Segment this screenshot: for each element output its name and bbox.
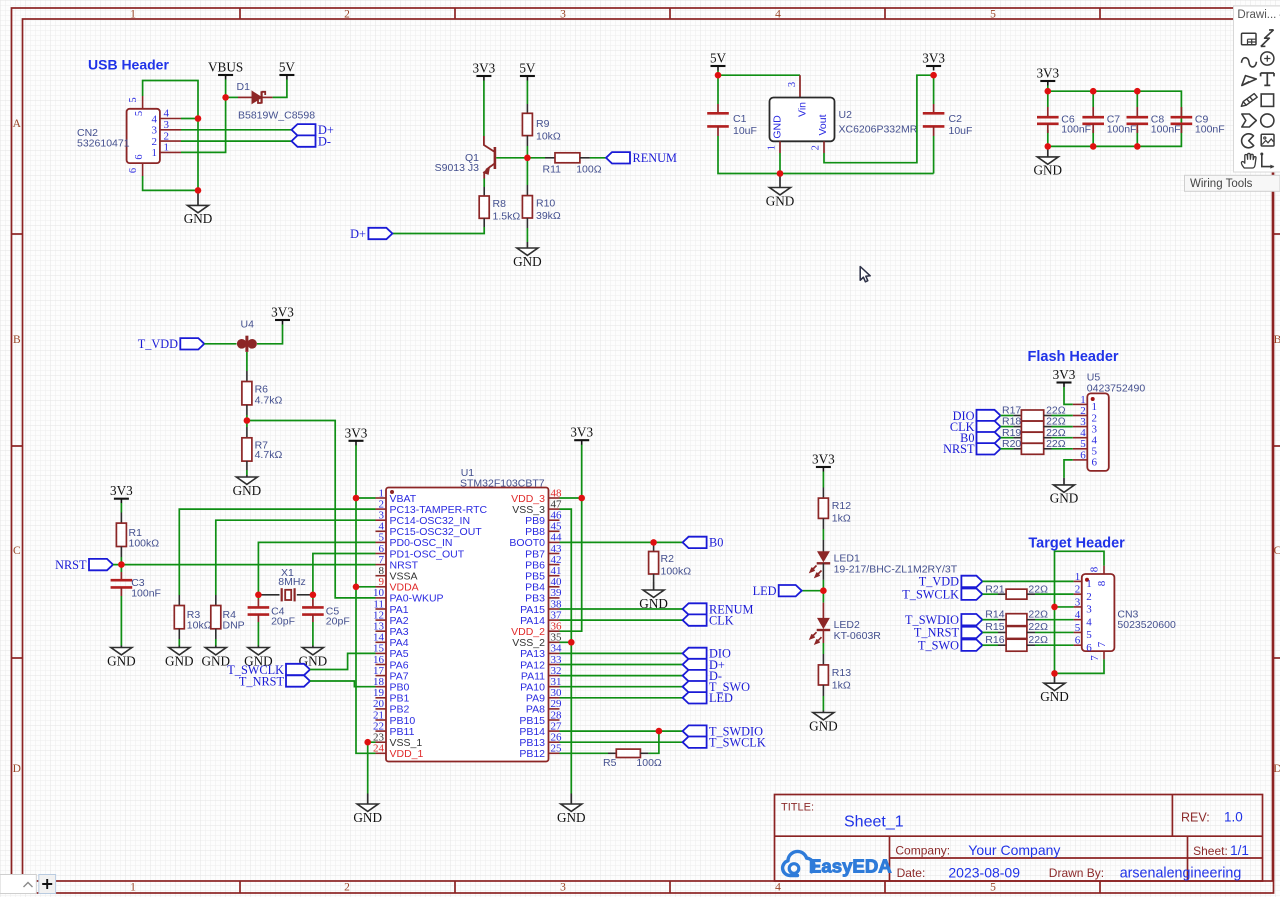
svg-text:5: 5 [990, 8, 996, 20]
wire Vout to 3V3 [824, 75, 934, 163]
wire 3V3 to top rail [1047, 86, 1049, 92]
ground below R10 [526, 242, 528, 248]
crystal X1 8MHz [261, 567, 311, 601]
wire R4 to gnd [215, 639, 217, 646]
svg-text:3V3: 3V3 [345, 425, 368, 440]
svg-text:4: 4 [775, 882, 781, 894]
svg-text:4: 4 [164, 108, 170, 120]
junction crystal left [255, 592, 262, 599]
svg-text:5: 5 [1086, 629, 1092, 641]
add sheet button [39, 875, 56, 894]
net flag NRST (flash) [977, 443, 1001, 454]
svg-text:20pF: 20pF [326, 615, 350, 627]
svg-text:GND: GND [233, 483, 262, 498]
junction target gnd [1051, 670, 1058, 677]
svg-text:100nF: 100nF [1195, 124, 1225, 136]
wire LED2 to R13 [822, 630, 824, 643]
junction VSS_2 [568, 639, 575, 646]
net flag B0 (flash) [977, 432, 1001, 443]
svg-text:R20: R20 [1002, 438, 1021, 450]
svg-text:Vin: Vin [797, 102, 809, 117]
MCU U1 STM32F103CBT7 [373, 467, 562, 762]
svg-text:TITLE:: TITLE: [781, 802, 814, 814]
EasyEDA logo [783, 851, 892, 876]
svg-text:3: 3 [1075, 596, 1081, 608]
svg-text:R12: R12 [832, 500, 851, 512]
net flag T_VDD (target) [961, 576, 982, 587]
ground below R7 [246, 475, 248, 477]
svg-text:1: 1 [130, 8, 136, 20]
wire gnd rail to CN3 pin3 [1055, 606, 1074, 608]
net flag CLK [683, 614, 707, 625]
svg-text:R14: R14 [985, 608, 1004, 620]
resistor R1 100k [116, 503, 159, 557]
net flag T_VDD [180, 338, 204, 349]
svg-text:100nF: 100nF [131, 588, 161, 600]
ferrite bead U4 [237, 319, 257, 352]
resistor R10 39k [522, 158, 561, 228]
svg-text:GND: GND [353, 810, 382, 825]
wire R6 to divider junction [246, 415, 248, 421]
wire VBUS junction to D1 anode [226, 96, 238, 98]
net flag LED (chain) [802, 590, 824, 592]
wire OSC_OUT to crystal [313, 554, 376, 595]
svg-text:10uF: 10uF [949, 125, 973, 137]
wire R19 to U5 pin4 [1052, 437, 1073, 439]
svg-text:NRST: NRST [55, 558, 87, 572]
junction VSS_1 [364, 739, 371, 746]
wire NRST row to U1 pin7 [113, 564, 376, 566]
resistor R6 4.7k [242, 371, 283, 415]
svg-text:5V: 5V [710, 51, 727, 66]
svg-text:532610471: 532610471 [77, 138, 130, 150]
svg-text:A: A [13, 118, 22, 130]
wire PA13 to DIO flag [560, 652, 683, 654]
wire CN3 pin7 to gnd junction [1055, 659, 1105, 673]
svg-text:5023520600: 5023520600 [1117, 619, 1176, 631]
svg-text:R16: R16 [985, 634, 1004, 646]
wire PB12 to R5 [560, 752, 609, 754]
wire PA15 to RENUM flag [560, 608, 683, 610]
wire 5V to R9 [526, 81, 528, 105]
svg-text:100kΩ: 100kΩ [129, 538, 160, 550]
wire BOOT0 to B0 flag [560, 541, 683, 543]
junction T_SWDIO/R5 [656, 728, 663, 735]
resistor R11 100 [527, 153, 601, 176]
svg-text:4: 4 [1086, 616, 1092, 628]
svg-text:R8: R8 [493, 198, 507, 210]
net flag DIO (flash) [977, 410, 1001, 421]
junction bottom rail C8 [1134, 143, 1141, 150]
svg-text:22Ω: 22Ω [1028, 634, 1048, 646]
wire C2 to gnd rail [933, 136, 935, 174]
resistor R17 22ohm [1001, 405, 1066, 421]
net flag D+ (Q1) [368, 228, 392, 239]
svg-text:Target Header: Target Header [1028, 536, 1125, 552]
svg-text:4: 4 [1075, 609, 1081, 621]
svg-text:4: 4 [152, 113, 158, 125]
svg-text:B: B [1274, 334, 1280, 346]
svg-text:3: 3 [164, 119, 170, 131]
svg-text:5: 5 [990, 882, 996, 894]
junction gnd bottom [195, 187, 202, 194]
svg-text:D+: D+ [350, 227, 366, 241]
svg-text:2: 2 [164, 130, 170, 142]
ground below R4 [215, 646, 217, 648]
net flag NRST [89, 559, 113, 570]
resistor R20 22ohm [1001, 438, 1066, 454]
svg-text:R21: R21 [985, 583, 1004, 595]
svg-text:4.7kΩ: 4.7kΩ [255, 394, 283, 406]
wire R11 to RENUM flag [590, 157, 606, 159]
wire U5 pin6 to gnd [1064, 460, 1073, 478]
svg-text:6: 6 [128, 168, 139, 173]
svg-text:1kΩ: 1kΩ [832, 513, 851, 525]
net flag T_SWO (target) [961, 640, 982, 651]
wire R1 to NRST node [120, 557, 122, 565]
net flag T_NRST (target) [961, 627, 982, 638]
svg-text:5: 5 [128, 97, 139, 102]
net flag DIO (U1) [683, 648, 707, 659]
capacitor C6 100nF [1037, 91, 1091, 146]
wire R12 to LED1 [822, 529, 824, 540]
wire 3V3 to U5 pin1 [1064, 387, 1073, 404]
svg-text:2: 2 [344, 882, 350, 894]
ground below R13 [822, 711, 824, 713]
svg-text:GND: GND [557, 810, 586, 825]
wire D1 cathode to 5V [273, 80, 287, 98]
wire CN3 pin8 to gnd rail [1055, 551, 1105, 673]
svg-text:GND: GND [1034, 163, 1063, 178]
tool icon wire [1261, 30, 1274, 47]
svg-text:10kΩ: 10kΩ [187, 620, 212, 632]
tool icon drag hand [1241, 153, 1256, 168]
wire 3V3 rail left (VBAT/VDDA/VDD_1) [356, 445, 376, 498]
svg-text:Date:: Date: [897, 866, 926, 880]
capacitor C8 100nF [1127, 91, 1181, 146]
svg-text:T_SWO: T_SWO [918, 639, 959, 653]
wire pin5 to gnd rail top [143, 81, 198, 191]
svg-text:B0: B0 [709, 536, 723, 550]
wire C5 to gnd [312, 622, 314, 646]
svg-text:arsenalengineering: arsenalengineering [1120, 865, 1242, 881]
tool icon netflag [1242, 76, 1257, 86]
junction VBAT [353, 495, 360, 502]
svg-text:D: D [1273, 763, 1280, 775]
wire LED1 to junction [822, 563, 824, 580]
wire R20 to U5 pin5 [1052, 448, 1073, 450]
ground below U2 [779, 174, 781, 188]
mouse cursor [860, 267, 870, 282]
svg-text:GND: GND [184, 211, 213, 226]
wire PB13 to T_SWCLK flag [560, 741, 683, 743]
wire R3 to gnd [178, 639, 180, 646]
ground symbol below CN2 [197, 190, 199, 205]
junction U2 gnd [777, 170, 784, 177]
tool icon image [1261, 134, 1274, 146]
diode D1 B5819W_C8598 [237, 81, 316, 122]
wire R21 to CN3 pin2 [1035, 593, 1074, 595]
svg-text:PB12: PB12 [519, 748, 545, 760]
wire T_SWCLK to PA5 [310, 653, 376, 669]
net flag D- [292, 135, 316, 146]
net flag D+ [292, 124, 316, 135]
svg-text:T_NRST: T_NRST [239, 674, 285, 688]
net flag D+ (U1) [683, 659, 707, 670]
net flag CLK (flash) [977, 421, 1001, 432]
wire junction to Vin pin3 [718, 74, 800, 76]
wire R8 to D+ flag [392, 227, 484, 234]
svg-text:3V3: 3V3 [922, 51, 945, 66]
tool icon text [1261, 73, 1274, 85]
svg-text:R10: R10 [536, 198, 555, 210]
svg-text:R2: R2 [661, 553, 675, 565]
resistor R19 22ohm [1001, 427, 1066, 443]
resistor R4 DNP [211, 595, 245, 639]
net flag RENUM (top) [606, 152, 630, 163]
svg-text:20pF: 20pF [271, 615, 295, 627]
junction bottom rail C7 [1090, 143, 1097, 150]
net flag B0 (U1) [683, 537, 707, 548]
wire PC13 row to R3 [179, 509, 375, 595]
svg-text:DNP: DNP [223, 620, 245, 632]
svg-text:100nF: 100nF [1151, 124, 1181, 136]
ground below C4 [257, 646, 259, 648]
wire pin3 to D+ flag [181, 129, 292, 131]
junction top rail C8 [1134, 88, 1141, 95]
tool icon dimension [1262, 155, 1274, 167]
svg-text:7: 7 [1096, 641, 1108, 647]
LED LED1 19-217/BHC-ZL1M2RY/3T [810, 540, 957, 577]
svg-text:1: 1 [767, 145, 778, 150]
net flag T_SWCLK (left) [286, 664, 310, 675]
svg-text:CLK: CLK [709, 613, 734, 627]
wire Q1 emitter to R8 [483, 179, 485, 188]
svg-text:Flash Header: Flash Header [1028, 349, 1119, 365]
drawing tools panel [1234, 6, 1280, 172]
wire PC14 row to R4 [216, 520, 376, 595]
svg-text:Drawi... —: Drawi... — [1237, 9, 1280, 21]
svg-text:GND: GND [107, 653, 136, 668]
svg-text:24: 24 [373, 743, 385, 755]
wire T_NRST to PB0 [310, 681, 376, 687]
svg-text:2: 2 [1086, 591, 1092, 603]
svg-text:10uF: 10uF [733, 125, 757, 137]
svg-text:1: 1 [130, 882, 136, 894]
svg-text:6: 6 [1075, 635, 1081, 647]
svg-text:1.0: 1.0 [1224, 810, 1243, 825]
svg-text:U2: U2 [839, 109, 853, 121]
svg-text:USB Header: USB Header [88, 57, 169, 73]
regulator U2 XC6206P332MR [767, 75, 918, 153]
wire 5V down to junction [717, 71, 719, 76]
svg-text:Vout: Vout [817, 114, 829, 135]
resistor R3 10k [174, 595, 211, 639]
wire U4 to 3V3 [257, 325, 283, 344]
wire R13 to gnd [822, 696, 824, 711]
svg-text:VDD_1: VDD_1 [390, 748, 424, 760]
capacitor C3 100nF [111, 565, 161, 600]
top rail cap bank [1048, 91, 1182, 146]
ground below R2 [653, 582, 655, 590]
wire R9 to base junction [526, 146, 528, 158]
svg-text:VBUS: VBUS [208, 60, 243, 75]
svg-text:B5819W_C8598: B5819W_C8598 [238, 110, 315, 122]
svg-text:3V3: 3V3 [473, 61, 496, 76]
junction top rail C7 [1090, 88, 1097, 95]
tool icon rect [1261, 94, 1273, 106]
svg-text:T_SWCLK: T_SWCLK [902, 587, 959, 601]
svg-text:GND: GND [202, 653, 231, 668]
junction crystal right [310, 592, 317, 599]
svg-text:3: 3 [560, 8, 566, 20]
wire R10 to gnd [526, 228, 528, 242]
capacitor C1 10uF [707, 104, 757, 137]
net flag T_NRST (left) [286, 675, 310, 686]
wire C1 branch [717, 75, 719, 104]
junction BOOT0/R2 [650, 539, 657, 546]
ground below cap bank [1047, 146, 1049, 157]
wire 3V3 rail right (VDD_3/VDD_2) [560, 445, 582, 499]
junction LED net [820, 587, 827, 594]
svg-text:8: 8 [1089, 566, 1101, 572]
svg-text:GND: GND [165, 653, 194, 668]
tool icon arc [1261, 52, 1274, 65]
svg-text:Your Company: Your Company [968, 842, 1060, 858]
svg-text:1/1: 1/1 [1230, 843, 1249, 858]
svg-text:4: 4 [775, 8, 781, 20]
resistor R8 1.5k [479, 187, 520, 227]
wire pin1 to VBUS [181, 97, 226, 152]
svg-text:3V3: 3V3 [1036, 66, 1059, 81]
svg-text:100kΩ: 100kΩ [661, 566, 692, 578]
svg-text:U4: U4 [241, 319, 255, 331]
svg-text:GND: GND [1040, 689, 1069, 704]
junction 5V/C1/Vin [715, 72, 722, 79]
wire R5 up to T_SWDIO net [648, 731, 659, 753]
tooltip Wiring Tools [1185, 175, 1280, 191]
wire pin4 to gnd rail [181, 118, 198, 120]
svg-text:6: 6 [1092, 457, 1098, 469]
wire Q1 base to junction [496, 157, 527, 159]
net flag T_SWCLK (U1) [683, 737, 707, 748]
tool icon circle [1261, 114, 1274, 127]
wire pin2 to D- flag [181, 140, 292, 142]
svg-text:R15: R15 [985, 621, 1004, 633]
svg-text:C1: C1 [733, 113, 747, 125]
junction bottom rail C6 [1045, 143, 1052, 150]
wire C4 to gnd [257, 622, 259, 646]
tool icon partial arc [1242, 134, 1254, 148]
svg-text:39kΩ: 39kΩ [536, 210, 561, 222]
svg-text:6: 6 [1080, 449, 1086, 461]
wire pin6 to gnd junction [143, 176, 198, 190]
svg-text:D1: D1 [237, 81, 251, 93]
svg-text:5V: 5V [519, 61, 536, 76]
connector CN3 5023520600 [1074, 566, 1176, 661]
wire R17 to U5 pin2 [1052, 415, 1073, 417]
svg-text:2: 2 [344, 8, 350, 20]
ground below R3 [178, 646, 180, 648]
ground below flash header [1063, 478, 1065, 485]
transistor Q1 S9013 [435, 136, 497, 179]
wire PA11 to D- flag [560, 675, 683, 677]
svg-text:5: 5 [1075, 622, 1081, 634]
svg-text:2023-08-09: 2023-08-09 [948, 864, 1020, 880]
connector U5 0423752490 [1073, 372, 1146, 471]
junction VDDA [353, 584, 360, 591]
wire C1 to gnd rail [718, 136, 934, 174]
wire R18 to U5 pin3 [1052, 426, 1073, 428]
svg-text:3V3: 3V3 [1053, 367, 1076, 382]
svg-text:Wiring Tools: Wiring Tools [1190, 178, 1253, 190]
junction divider [244, 417, 251, 424]
svg-text:1.5kΩ: 1.5kΩ [493, 211, 521, 223]
svg-text:5: 5 [134, 111, 145, 116]
svg-text:1: 1 [1086, 578, 1092, 590]
bottom sheet tab bar [0, 875, 36, 894]
resistor R12 1k [818, 472, 851, 530]
resistor R13 1k [818, 654, 851, 696]
junction gnd rail pin3 [1051, 604, 1058, 611]
net flag D- (U1) [683, 670, 707, 681]
tool icon component [1242, 33, 1257, 45]
wire PA9 to LED flag [560, 697, 683, 699]
svg-text:22Ω: 22Ω [1028, 608, 1048, 620]
svg-text:XC6206P332MR: XC6206P332MR [839, 124, 918, 136]
svg-text:GND: GND [513, 254, 542, 269]
resistor R7 4.7k [242, 421, 283, 471]
svg-text:19-217/BHC-ZL1M2RY/3T: 19-217/BHC-ZL1M2RY/3T [834, 563, 958, 575]
svg-text:6: 6 [1086, 642, 1092, 654]
wire C3 to gnd [120, 596, 122, 646]
svg-text:Drawn By:: Drawn By: [1049, 866, 1104, 880]
net flag LED (U1) [683, 692, 707, 703]
ground below target header [1054, 673, 1056, 683]
wire U2 gnd pin to rail [779, 153, 781, 174]
wire PA12 to D+ flag [560, 664, 683, 666]
capacitor C2 10uF [923, 75, 973, 137]
svg-text:3V3: 3V3 [812, 452, 835, 467]
svg-text:2: 2 [811, 145, 822, 150]
net flag RENUM (U1) [683, 603, 707, 614]
net flag T_SWDIO (target) [961, 614, 982, 625]
wire 3V3 to Q1 collector [483, 81, 485, 137]
wire PA14 to CLK flag [560, 619, 683, 621]
svg-text:1: 1 [1075, 571, 1081, 583]
svg-text:100nF: 100nF [1061, 124, 1091, 136]
tool icon bezier [1242, 58, 1257, 67]
svg-text:C2: C2 [949, 113, 963, 125]
svg-text:22Ω: 22Ω [1028, 621, 1048, 633]
svg-text:3: 3 [152, 125, 158, 137]
net flag T_SWCLK (target) [961, 588, 982, 599]
svg-text:T_SWCLK: T_SWCLK [709, 736, 766, 750]
svg-text:Sheet_1: Sheet_1 [844, 814, 904, 831]
resistor R21 22ohm [982, 583, 1048, 599]
svg-text:1kΩ: 1kΩ [832, 680, 851, 692]
wire R15 to CN3 pin5 [1035, 631, 1074, 633]
resistor R15 22ohm [982, 621, 1048, 638]
svg-text:GND: GND [772, 115, 784, 139]
ground below C5 [312, 646, 314, 648]
wire R7 to gnd [246, 470, 248, 475]
svg-text:LED: LED [753, 584, 777, 598]
wire PA10 to T_SWO flag [560, 686, 683, 688]
resistor R9 10k [522, 104, 561, 146]
svg-text:GND: GND [1050, 491, 1079, 506]
svg-text:2: 2 [152, 136, 158, 148]
